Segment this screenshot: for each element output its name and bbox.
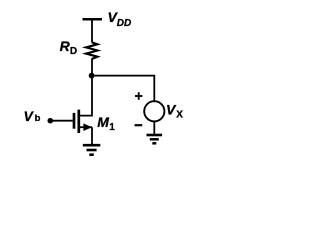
ground (M1 source) [83,145,101,155]
ground (VX) [147,135,163,143]
resistor RD [86,42,97,59]
wire: node to VX top [92,76,155,101]
svg-text:DD: DD [117,18,131,29]
label VDD [108,9,132,29]
wire: resistor to drain node [91,58,93,76]
wire: gate [50,120,73,122]
svg-text:M: M [97,114,109,130]
transistor M1 source lead with arrow [80,123,92,131]
wire: node down to drain of M1 [80,76,92,116]
VDD supply bar [83,18,103,21]
label RD [60,38,78,57]
minus sign of VX [135,124,143,126]
wire: VDD stem to resistor [91,19,93,42]
node: drain junction dot [89,73,95,79]
voltage source VX [144,101,164,121]
label VX [166,102,183,121]
label M1 [97,114,115,133]
svg-text:V: V [24,108,35,124]
node: Vb terminal dot [48,118,54,124]
transistor M1 gate bar [73,113,76,129]
svg-text:D: D [70,46,77,57]
transistor M1 channel bar [77,110,80,133]
wire: source to ground [91,127,93,144]
plus sign of VX [135,92,142,99]
wire: VX to ground [153,121,155,134]
label Vb [24,108,41,124]
svg-text:b: b [35,113,41,124]
svg-text:X: X [176,110,183,121]
svg-text:1: 1 [109,122,115,133]
